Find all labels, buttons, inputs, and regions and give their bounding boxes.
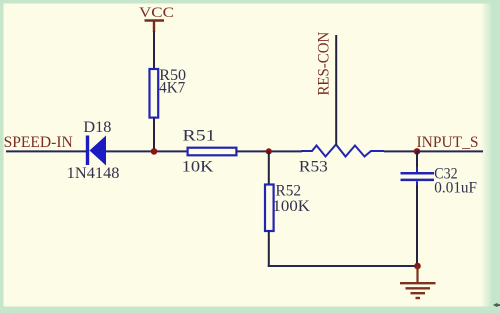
svg-text:0.01uF: 0.01uF [434, 180, 477, 197]
wire output rail [417, 150, 483, 152]
svg-text:R53: R53 [299, 159, 328, 176]
resistor R51 [188, 148, 237, 156]
capacitor C32 [401, 167, 435, 186]
svg-text:SPEED-IN: SPEED-IN [4, 134, 74, 151]
wire left segment [6, 150, 87, 152]
svg-text:100K: 100K [273, 198, 311, 215]
junction node at ground [414, 263, 421, 270]
svg-text:4K7: 4K7 [159, 80, 185, 97]
wire VCC to R50 [153, 31, 155, 69]
svg-text:10K: 10K [182, 159, 214, 176]
diode D18 [86, 136, 106, 166]
svg-text:D18: D18 [83, 119, 111, 136]
cursor artifact [493, 303, 500, 307]
ground symbol [400, 266, 436, 298]
svg-text:INPUT_S: INPUT_S [417, 134, 479, 151]
resistor R50 [150, 69, 159, 118]
svg-text:1N4148: 1N4148 [67, 165, 120, 182]
wire junction to R52 [268, 151, 270, 185]
junction node at output [414, 148, 421, 155]
svg-text:VCC: VCC [139, 5, 174, 21]
wire R53 wiper [335, 35, 337, 145]
potentiometer R53 [301, 145, 384, 157]
junction node at R50 [151, 148, 158, 155]
junction node at R52 tap [266, 148, 272, 154]
wire C32 to ground rail [416, 185, 418, 266]
wire diode to R51 [106, 150, 188, 152]
wire output to C32 [416, 151, 418, 168]
power symbol VCC [145, 21, 165, 33]
resistor R52 [265, 185, 274, 232]
svg-text:R52: R52 [276, 183, 302, 200]
wire R50 to main rail [153, 118, 155, 152]
wire R51 to R53 [236, 150, 302, 152]
svg-text:R51: R51 [183, 128, 216, 145]
wire R53 to output [384, 150, 418, 152]
wire R52 to bottom rail [268, 231, 270, 267]
svg-text:RES-CON: RES-CON [315, 31, 332, 95]
wire bottom rail [268, 265, 418, 267]
